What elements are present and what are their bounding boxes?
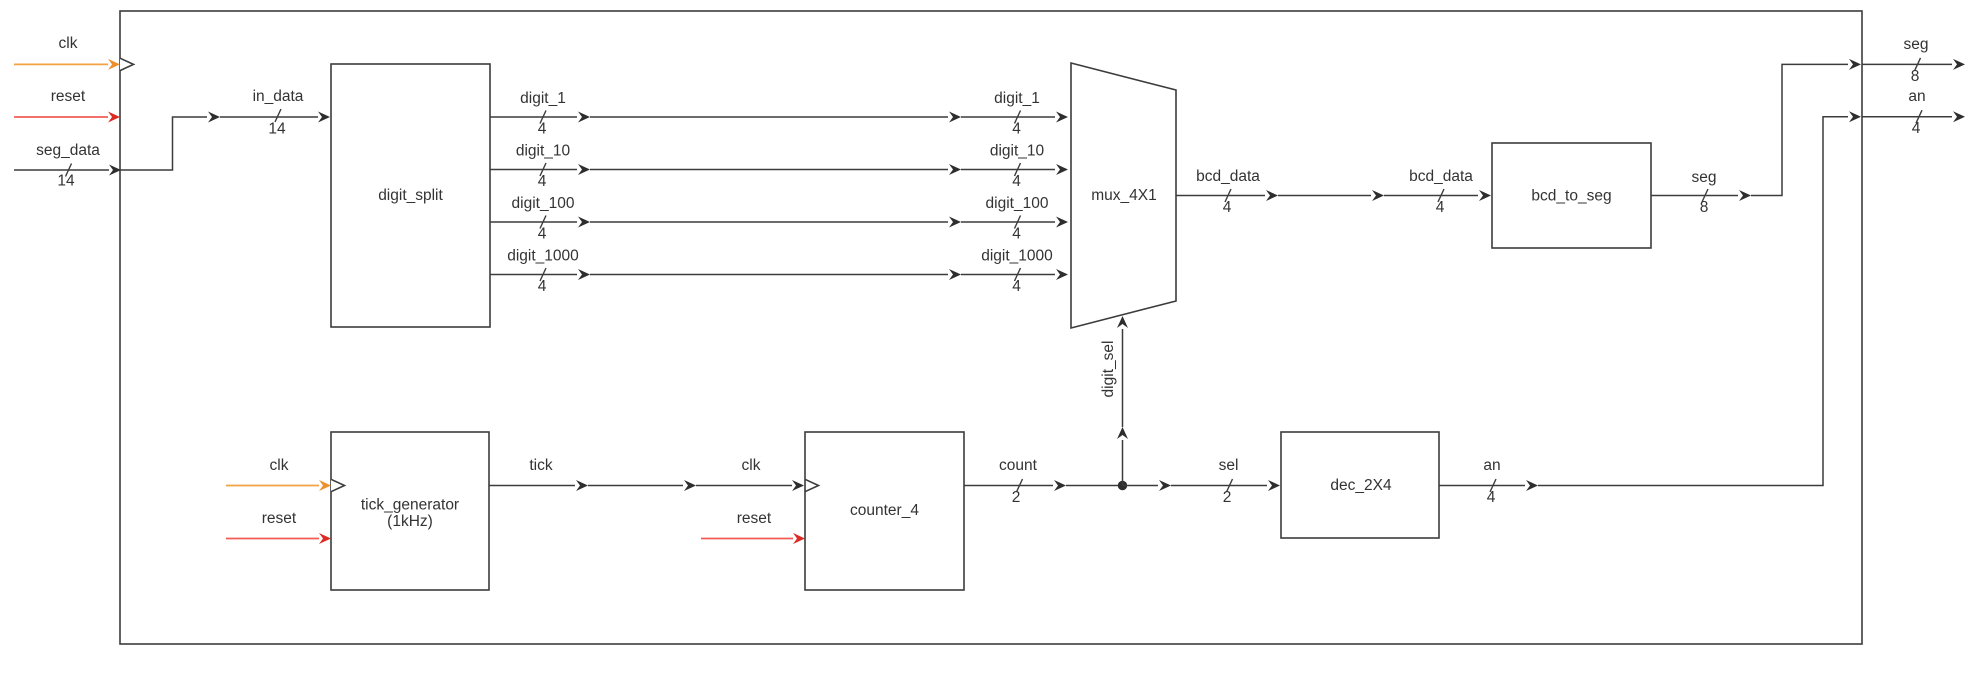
svg-text:2: 2 — [1012, 489, 1021, 506]
block counter_4 — [805, 432, 964, 590]
block bcd_to_seg — [1492, 143, 1651, 248]
svg-text:bcd_data: bcd_data — [1196, 168, 1260, 185]
svg-text:count: count — [999, 457, 1038, 474]
svg-text:clk: clk — [270, 457, 289, 474]
svg-text:seg_data: seg_data — [36, 142, 100, 159]
wire digit_1 (digit_split to mux) — [490, 116, 577, 118]
svg-text:digit_100: digit_100 — [986, 195, 1049, 212]
wire reset to counter_4 (red) — [701, 538, 793, 540]
wire reset input (red) — [14, 116, 108, 118]
bus slash digit_1 left — [540, 111, 546, 124]
wire digit_10 — [490, 169, 577, 171]
svg-text:tick: tick — [529, 457, 553, 474]
bus slash digit_100 left — [540, 216, 546, 229]
wire an (dec_2X4 output, routes up to frame) — [1439, 485, 1525, 487]
junction node (count/sel/digit_sel) — [1118, 481, 1127, 490]
bus slash seg inner — [1702, 189, 1708, 202]
svg-text:4: 4 — [538, 278, 547, 295]
block dec_2X4 — [1281, 432, 1439, 538]
svg-text:seg: seg — [1904, 36, 1929, 53]
svg-text:an: an — [1908, 88, 1925, 105]
svg-text:dec_2X4: dec_2X4 — [1330, 477, 1392, 494]
svg-text:clk: clk — [742, 457, 761, 474]
wire seg_data input — [14, 169, 109, 171]
wire reset to tick_generator (red) — [226, 538, 319, 540]
svg-text:digit_sel: digit_sel — [1100, 341, 1117, 398]
svg-text:digit_1: digit_1 — [994, 90, 1040, 107]
svg-text:4: 4 — [1223, 199, 1232, 216]
block tick_generator (1kHz) — [331, 432, 489, 590]
bus slash sel — [1227, 479, 1233, 492]
bus slash bcd_data left — [1225, 189, 1231, 202]
svg-text:4: 4 — [538, 173, 547, 190]
svg-text:4: 4 — [1012, 278, 1021, 295]
bus slash digit_1 right — [1015, 111, 1021, 124]
wire digit_100 — [490, 221, 577, 223]
svg-text:4: 4 — [1012, 173, 1021, 190]
wire sel (junction to dec_2X4) — [1123, 485, 1159, 487]
svg-text:4: 4 — [1012, 121, 1021, 138]
svg-text:seg: seg — [1692, 169, 1717, 186]
clock triangle on counter_4 — [805, 479, 819, 491]
svg-text:8: 8 — [1700, 199, 1709, 216]
svg-text:4: 4 — [538, 226, 547, 243]
svg-text:digit_10: digit_10 — [990, 143, 1045, 160]
wire clk input (orange) — [14, 63, 108, 65]
clock triangle on frame for clk — [120, 58, 134, 70]
svg-text:reset: reset — [737, 510, 772, 527]
bus slash count — [1017, 479, 1023, 492]
bus slash an inner — [1490, 479, 1496, 492]
wire in_data into digit_split — [220, 116, 318, 118]
svg-text:sel: sel — [1219, 457, 1239, 474]
wire seg_data to in_data (bend inside frame) — [120, 117, 207, 170]
bus slash digit_1000 left — [540, 268, 546, 281]
wire clk to tick_generator (orange) — [226, 485, 319, 487]
bus slash bcd_data right — [1438, 189, 1444, 202]
svg-text:2: 2 — [1223, 489, 1232, 506]
svg-text:bcd_data: bcd_data — [1409, 168, 1473, 185]
svg-text:digit_1000: digit_1000 — [981, 248, 1053, 265]
block digit_split — [331, 64, 490, 327]
svg-text:tick_generator: tick_generator — [361, 496, 459, 513]
wire count (counter_4 to junction) — [964, 485, 1053, 487]
svg-text:digit_100: digit_100 — [512, 195, 575, 212]
svg-text:in_data: in_data — [253, 88, 304, 105]
wire an output (outside frame) — [1862, 116, 1952, 118]
svg-text:14: 14 — [57, 173, 75, 190]
svg-text:4: 4 — [538, 121, 547, 138]
svg-text:counter_4: counter_4 — [850, 502, 919, 519]
bus slash digit_100 right — [1015, 216, 1021, 229]
bus slash in_data — [275, 109, 281, 122]
bus slash digit_10 left — [540, 163, 546, 176]
svg-text:mux_4X1: mux_4X1 — [1091, 187, 1156, 204]
mux U1 mux_4X1 (trapezoid) — [1071, 63, 1176, 328]
svg-text:digit_1000: digit_1000 — [507, 248, 579, 265]
svg-text:reset: reset — [51, 88, 86, 105]
bus slash seg_data — [66, 164, 72, 177]
svg-text:4: 4 — [1436, 199, 1445, 216]
svg-text:(1kHz): (1kHz) — [387, 513, 433, 530]
bus slash digit_10 right — [1015, 163, 1021, 176]
wire bcd_data (mux to bcd_to_seg) — [1176, 195, 1265, 197]
wire tick (tick_generator to counter_4) — [489, 485, 575, 487]
svg-text:digit_10: digit_10 — [516, 143, 571, 160]
svg-text:4: 4 — [1487, 489, 1496, 506]
bus slash seg output — [1915, 58, 1921, 71]
clock triangle on tick_generator — [331, 479, 345, 491]
wire seg (bcd_to_seg output, routes up to frame) — [1651, 195, 1738, 197]
svg-text:digit_split: digit_split — [378, 187, 443, 204]
svg-text:an: an — [1483, 457, 1500, 474]
svg-text:bcd_to_seg: bcd_to_seg — [1531, 188, 1611, 205]
wire digit_sel (junction up to mux) — [1122, 440, 1124, 486]
svg-text:4: 4 — [1012, 226, 1021, 243]
svg-text:reset: reset — [262, 510, 297, 527]
svg-text:clk: clk — [59, 35, 78, 52]
wire seg output (outside frame) — [1862, 63, 1952, 65]
svg-text:8: 8 — [1911, 68, 1920, 85]
bus slash an output — [1916, 110, 1922, 123]
wire digit_1000 — [490, 274, 577, 276]
bus slash digit_1000 right — [1015, 268, 1021, 281]
svg-text:digit_1: digit_1 — [520, 90, 566, 107]
svg-text:4: 4 — [1912, 120, 1921, 137]
svg-text:14: 14 — [268, 121, 286, 138]
